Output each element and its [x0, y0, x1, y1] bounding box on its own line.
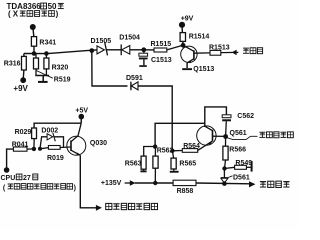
ground below R519/R320: [42, 76, 44, 82]
svg-text:Q030: Q030: [90, 140, 107, 147]
label line-output-supply: [260, 181, 290, 187]
svg-text:R519: R519: [54, 77, 71, 84]
svg-text:D1505: D1505: [91, 38, 112, 45]
svg-text:R1514: R1514: [189, 33, 210, 40]
resistor R320 (right of parallel pair): [45, 54, 47, 59]
svg-text:TDA8366: TDA8366: [7, 2, 42, 11]
wire rail continues: [196, 182, 250, 185]
label field-protect: [243, 48, 263, 54]
diode D561 (points down): [223, 169, 225, 178]
resistor R562: [154, 147, 156, 157]
svg-text:+9V: +9V: [13, 84, 28, 93]
label R519 with leader: [36, 70, 53, 78]
wire parallel pair bottoms join: [35, 69, 37, 76]
svg-text:27: 27: [23, 175, 31, 182]
resistor R563: [141, 156, 146, 169]
label: to line driver base: [106, 203, 158, 209]
wire R041 to node A: [27, 148, 34, 150]
svg-text:R320: R320: [52, 65, 69, 72]
wire top rail: [24, 50, 92, 53]
wire +135V rail: [135, 182, 173, 184]
wire R566 to node: [225, 160, 226, 169]
svg-text:D002: D002: [41, 127, 58, 134]
node junction D1505/D591 branch: [89, 48, 94, 53]
svg-text:+9V: +9V: [181, 16, 194, 23]
wire node A to D002 anode: [40, 137, 47, 149]
node junction D002 branch: [38, 147, 42, 151]
resistor R316: [22, 56, 27, 70]
wire junction to R564: [172, 150, 182, 152]
diode D002: [47, 134, 53, 140]
arrowhead to line output supply: [249, 181, 255, 187]
resistor R564: [182, 149, 197, 153]
node junction C1513/R1515: [141, 47, 146, 52]
resistor R565: [172, 151, 173, 158]
resistor R549: [235, 165, 247, 169]
resistor R019: [48, 146, 60, 150]
svg-text:R041: R041: [12, 142, 29, 149]
node junction R320/rail: [44, 51, 49, 56]
wire R564 to Q561 emitter: [198, 141, 213, 150]
arrowhead to line-driver base: [96, 205, 102, 211]
wire junction down from D1505 node: [92, 51, 128, 86]
svg-text:R1513: R1513: [209, 45, 230, 52]
leader to overcurrent label: [227, 136, 258, 139]
svg-text:CPU: CPU: [1, 175, 16, 182]
node junction D591line/R564/R565: [170, 149, 174, 153]
svg-text:): ): [74, 185, 76, 192]
svg-text:R564: R564: [183, 143, 200, 150]
wire Q030 collector to +5V rail: [78, 123, 81, 136]
transistor Q561: [197, 126, 216, 145]
svg-text:+5V: +5V: [75, 108, 88, 115]
node junction R562/rail: [153, 181, 157, 185]
wire R1513 to field-protect arrow: [221, 51, 239, 53]
svg-text:C562: C562: [237, 113, 254, 120]
arrowhead +135V in: [130, 180, 136, 186]
resistor R1513: [210, 50, 221, 55]
node junction base/C562/R566: [223, 134, 228, 139]
svg-text:R029: R029: [15, 129, 32, 136]
svg-text:R316: R316: [4, 61, 21, 68]
label (standby drives line-driver saturated): [3, 184, 76, 192]
arrowhead pointing left (from field protect): [232, 50, 237, 56]
node junction R029/R041: [32, 147, 36, 151]
terminal bar: [251, 161, 253, 172]
node junction R341/rail: [32, 51, 37, 56]
wire terminal up and right to R041: [7, 149, 14, 170]
resistor R041: [13, 147, 27, 151]
svg-text:(: (: [3, 185, 6, 192]
node: TDA8366 pin50 terminal: [30, 24, 36, 30]
svg-text:R341: R341: [39, 39, 56, 46]
wire node to R549: [225, 167, 235, 168]
node +5V terminal: [80, 117, 82, 123]
svg-text:R566: R566: [229, 146, 246, 153]
resistor R519 (left of parallel pair): [35, 54, 37, 59]
diode D1505: [97, 46, 104, 54]
node junction R549/D561: [222, 166, 226, 170]
wire junction to D1505: [92, 49, 97, 51]
capacitor C562: [222, 115, 231, 118]
wire Q030 emitter down to drive arrow: [80, 155, 96, 208]
label TDA8366 pin50 title line1: [7, 2, 64, 11]
node CPU pin27 terminal: [4, 167, 10, 173]
resistor R858: [173, 180, 196, 185]
resistor R566: [225, 137, 227, 147]
wire Q561 collector riser and top corner to C562: [205, 107, 227, 127]
svg-text:Q1513: Q1513: [193, 66, 214, 73]
svg-text:C1513: C1513: [151, 57, 172, 64]
node junction R562/R563: [153, 144, 157, 148]
wire R316 to +9V: [22, 70, 25, 78]
resistor R1515: [154, 48, 167, 52]
wire terminal to R341: [33, 27, 34, 37]
transistor Q1513: [181, 46, 197, 62]
svg-text:R563: R563: [125, 160, 142, 167]
wire corner to R563: [144, 147, 155, 157]
wire node A to R019: [40, 148, 48, 149]
svg-text:+135V: +135V: [101, 180, 122, 187]
diode D1504 (points left): [120, 44, 122, 55]
svg-text:R549: R549: [235, 160, 252, 167]
wire Q561 base to node: [213, 135, 226, 137]
svg-text:R019: R019: [47, 155, 64, 162]
wire R1514 to node: [182, 41, 184, 45]
ground below R563: [143, 169, 145, 170]
wire emitter to ground: [186, 63, 188, 68]
wire D1504 to node C1513: [130, 49, 144, 51]
wire D1505 to D1504: [106, 49, 121, 51]
svg-text:R565: R565: [179, 161, 196, 168]
wire base to R1513: [194, 52, 210, 54]
label (X-ray protect) title line2: [8, 10, 59, 19]
svg-text:D1504: D1504: [119, 35, 140, 42]
transistor Q030: [67, 136, 86, 155]
wire +9V to R1514: [181, 25, 183, 33]
svg-text:R1515: R1515: [151, 41, 172, 48]
ground below C1513: [143, 59, 145, 65]
svg-text:): ): [56, 10, 59, 19]
svg-text:Q561: Q561: [230, 130, 247, 137]
node junction D561/+135V rail: [222, 181, 227, 186]
wire R316 top corner: [23, 54, 25, 57]
label line-overcurrent-protect: [259, 132, 293, 138]
wire C562 bottom to base node: [225, 121, 228, 136]
wire R341 bottom to rail: [33, 46, 35, 53]
svg-text:D561: D561: [233, 174, 250, 181]
svg-text:X: X: [13, 10, 19, 19]
resistor R341: [31, 37, 36, 47]
node junction R1514/R1515/collector: [181, 43, 186, 48]
wire D591 to right corner, down the long vertical: [138, 86, 172, 151]
resistor R029: [32, 128, 37, 139]
svg-text:(: (: [8, 10, 11, 19]
wire base rail to Q561 collector riser: [155, 123, 205, 146]
node +9V terminal left: [20, 77, 26, 83]
label CPU pin 27: [1, 174, 38, 182]
ground below Q1513: [182, 68, 192, 70]
capacitor C1513: [143, 50, 145, 53]
wire R019 to Q030 base: [60, 146, 70, 149]
diode D591 (points left): [130, 82, 132, 91]
wire R1515 to base node: [167, 45, 183, 50]
svg-text:R858: R858: [177, 188, 194, 195]
wire R549 to terminal bar: [246, 166, 251, 168]
svg-text:D591: D591: [126, 75, 143, 82]
wire D002 cathode to base rail: [54, 137, 64, 148]
wire R562 to +135V rail: [154, 168, 156, 183]
ground below R565: [173, 169, 175, 171]
resistor R1514: [180, 33, 185, 42]
wire R029 top to +5V rail: [34, 123, 81, 128]
wire node to R1515: [144, 49, 154, 51]
